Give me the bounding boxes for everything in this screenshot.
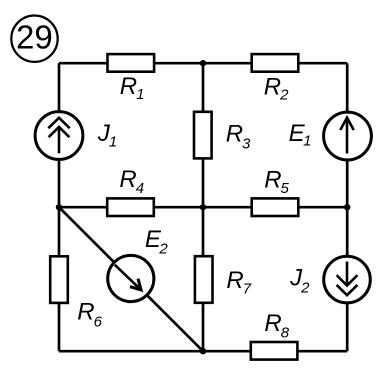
node dot middle-left: [56, 204, 62, 210]
svg-text:E2: E2: [145, 226, 169, 257]
node dot top-middle: [200, 60, 206, 66]
current source J1 (circle, double up arrow): [35, 112, 117, 160]
wire diagonal (node M-L to node B-M): [59, 207, 203, 351]
svg-text:R1: R1: [120, 73, 145, 103]
svg-text:J1: J1: [97, 120, 117, 150]
wire middle horizontal (node M-L to node M-R): [59, 206, 347, 209]
circuit number badge 29: [11, 16, 57, 62]
resistor R8: [251, 310, 298, 360]
node dot middle-center: [200, 204, 206, 210]
svg-text:R3: R3: [226, 121, 251, 153]
resistor R4: [107, 166, 154, 216]
resistor R6: [50, 256, 102, 330]
svg-text:29: 29: [16, 19, 53, 56]
resistor R7: [195, 256, 252, 303]
node dot bottom-middle: [200, 348, 206, 354]
resistor R5: [252, 166, 299, 216]
wire top horizontal (node T-L to node T-R): [59, 62, 347, 65]
wire left vertical: [58, 63, 61, 351]
svg-text:E1: E1: [289, 120, 312, 150]
resistor R3: [194, 112, 251, 159]
svg-text:R8: R8: [264, 310, 289, 341]
current source J2 (circle, double down arrow): [289, 256, 370, 303]
wire right vertical: [346, 63, 349, 351]
svg-text:R7: R7: [226, 267, 251, 298]
resistor R2: [252, 54, 299, 103]
svg-text:R4: R4: [119, 166, 144, 197]
wire middle vertical: [202, 63, 205, 351]
resistor R1: [108, 54, 155, 103]
node dot middle-right: [344, 204, 350, 210]
svg-text:R2: R2: [264, 73, 289, 103]
svg-text:R5: R5: [264, 166, 289, 197]
svg-text:J2: J2: [289, 264, 310, 296]
svg-text:R6: R6: [77, 298, 102, 330]
voltage source E2 (circle on diagonal, down-right arrow): [108, 226, 169, 301]
voltage source E1 (circle, up arrow): [289, 112, 372, 160]
wire bottom horizontal (node B-L to node B-R): [59, 350, 347, 353]
